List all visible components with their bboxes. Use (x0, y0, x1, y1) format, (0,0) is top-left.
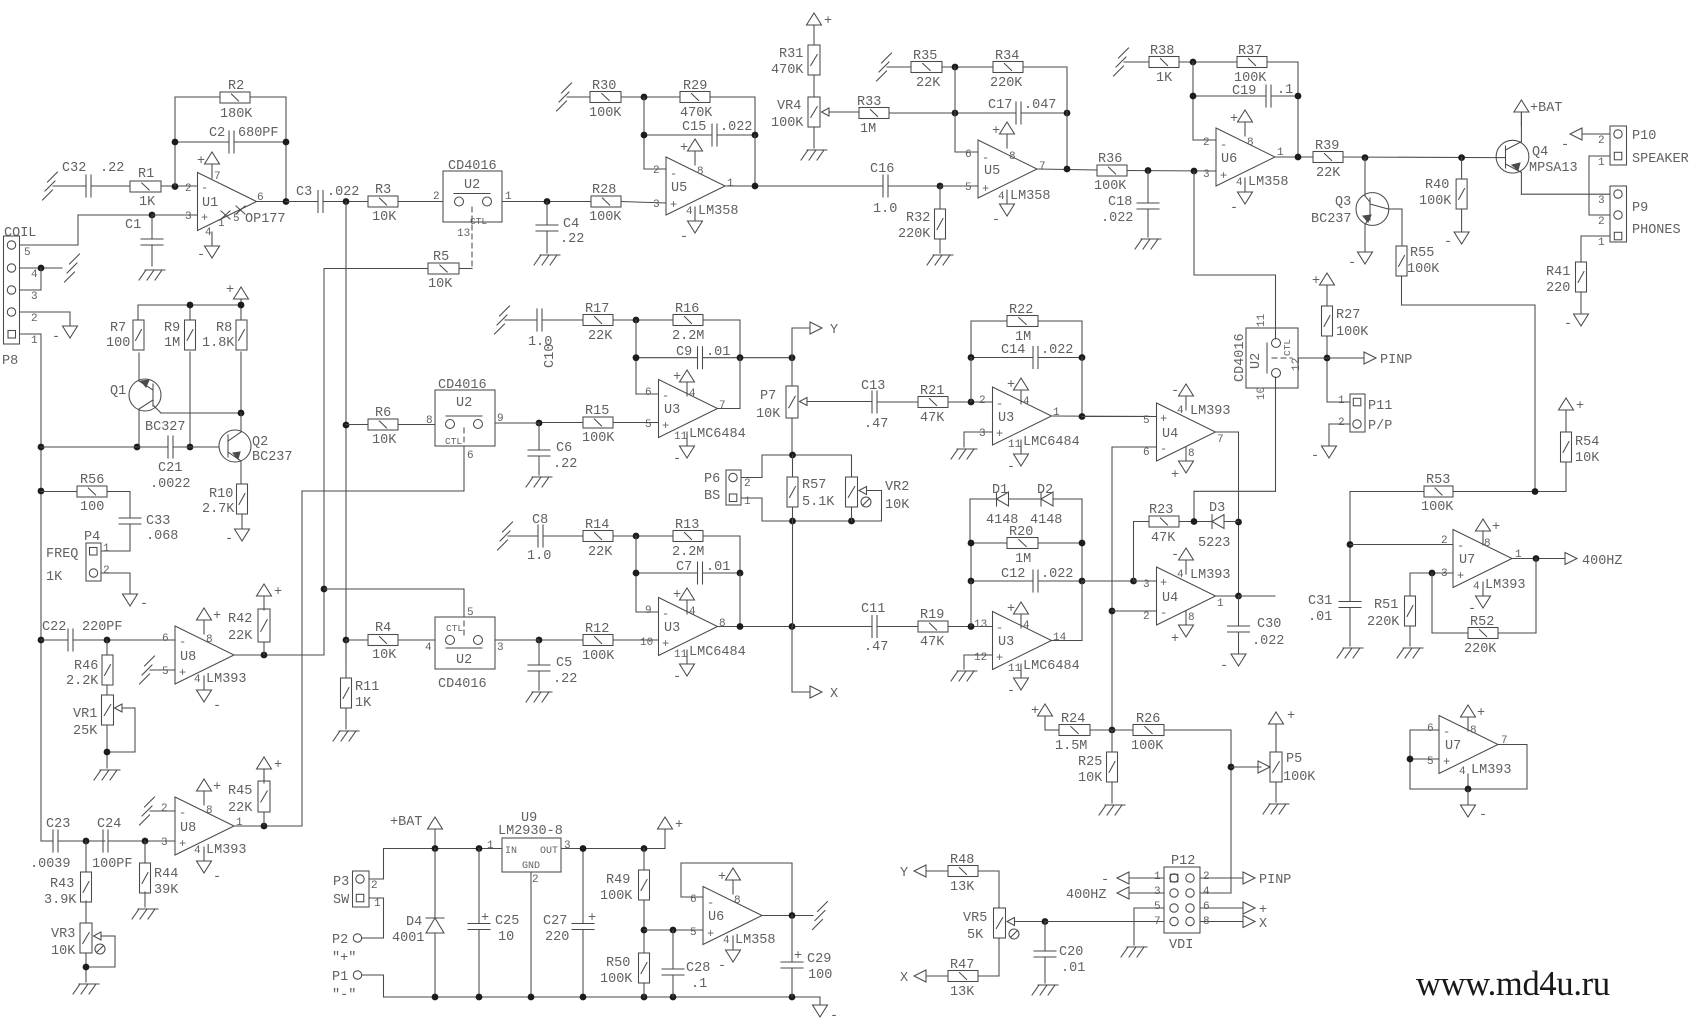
ground C10 (500, 306, 510, 316)
svg-text:-: - (1564, 317, 1572, 332)
svg-text:5: 5 (233, 213, 240, 225)
svg-text:3: 3 (497, 642, 504, 654)
power + R45 (257, 757, 272, 769)
svg-text:.22: .22 (560, 232, 584, 247)
wire (543, 535, 583, 537)
resistor R1 (130, 181, 161, 192)
wire (152, 214, 198, 216)
svg-text:FREQ: FREQ (46, 547, 78, 562)
wire (741, 497, 762, 499)
wire emitter (1521, 193, 1610, 195)
connector P4 (86, 543, 101, 581)
svg-text:1: 1 (236, 817, 243, 829)
node (633, 317, 640, 324)
svg-text:11: 11 (1008, 663, 1022, 675)
svg-text:-: - (982, 151, 989, 165)
svg-text:-: - (140, 597, 148, 612)
svg-text:LM358: LM358 (1248, 175, 1289, 190)
svg-text:22K: 22K (588, 329, 613, 344)
svg-text:R49: R49 (606, 873, 630, 888)
capacitor C13 (871, 391, 873, 413)
svg-text:+: + (1171, 632, 1179, 647)
ground R44 (138, 908, 158, 910)
arrow X P12 (1200, 921, 1243, 923)
capacitor C18 (1147, 171, 1149, 204)
svg-text:C13: C13 (861, 379, 885, 394)
svg-text:R17: R17 (585, 302, 609, 317)
wire (1179, 61, 1237, 63)
svg-text:2: 2 (161, 803, 168, 815)
svg-text:R26: R26 (1136, 712, 1160, 727)
wire pin3 U7a (1410, 572, 1453, 574)
wire (970, 498, 997, 500)
svg-text:10K: 10K (1078, 771, 1103, 786)
svg-text:5.1K: 5.1K (802, 495, 835, 510)
power +V U7b (1461, 705, 1476, 717)
svg-text:R34: R34 (995, 49, 1019, 64)
capacitor C32 (85, 175, 87, 197)
svg-text:2: 2 (653, 165, 660, 177)
resistor R35 (911, 62, 942, 73)
svg-text:4: 4 (1203, 886, 1210, 898)
svg-text:10K: 10K (428, 277, 453, 292)
svg-text:X: X (900, 971, 908, 986)
wire (971, 580, 1033, 582)
svg-text:2: 2 (1441, 535, 1448, 547)
svg-text:2: 2 (1598, 216, 1605, 228)
wire out U4b (1216, 595, 1239, 597)
resistor R13 (673, 531, 703, 542)
capacitor C20 (1044, 922, 1046, 952)
svg-text:R7: R7 (110, 321, 126, 336)
svg-text:6: 6 (645, 387, 652, 399)
resistor R54 (1565, 424, 1567, 432)
wire fb U7b (1410, 729, 1439, 731)
svg-text:C15: C15 (682, 120, 706, 135)
wire (1224, 521, 1239, 523)
svg-text:R52: R52 (1470, 615, 1494, 630)
capacitor C21 (167, 436, 169, 458)
wire (129, 524, 131, 551)
wire (613, 319, 673, 321)
svg-text:1K: 1K (46, 570, 63, 585)
svg-text:-: - (1561, 138, 1569, 153)
svg-text:MPSA13: MPSA13 (1529, 161, 1578, 176)
svg-text:2.2M: 2.2M (672, 329, 704, 344)
svg-text:+: + (824, 14, 832, 29)
svg-text:C12: C12 (1001, 567, 1025, 582)
resistor R31 (813, 39, 815, 45)
svg-text:VR1: VR1 (73, 707, 97, 722)
svg-text:9: 9 (645, 605, 652, 617)
resistor R20 (1007, 538, 1038, 549)
svg-text:R47: R47 (950, 958, 974, 973)
wire out U7a (1512, 558, 1565, 560)
power -V U6b (1238, 192, 1253, 204)
svg-text:R11: R11 (355, 680, 379, 695)
resistor R51 (1405, 596, 1416, 626)
svg-text:25K: 25K (73, 724, 98, 739)
connector P3 (353, 871, 370, 907)
capacitor C22 (67, 629, 69, 651)
svg-text:-: - (1220, 138, 1227, 152)
wire wiper P5 (1231, 766, 1261, 768)
power + R54 (1559, 398, 1574, 410)
node (1042, 918, 1049, 925)
svg-text:100K: 100K (1094, 179, 1127, 194)
svg-text:D4: D4 (406, 915, 422, 930)
svg-text:R40: R40 (1425, 178, 1449, 193)
wire (1581, 235, 1610, 237)
power - P4 (123, 594, 138, 606)
wire (948, 626, 993, 628)
svg-text:470K: 470K (680, 106, 713, 121)
svg-text:1M: 1M (164, 336, 180, 351)
svg-text:100K: 100K (582, 431, 615, 446)
svg-text:100: 100 (80, 500, 104, 515)
connector P6 (726, 470, 741, 505)
node (83, 838, 90, 845)
pot P7 (791, 358, 793, 386)
power +V U6b (1238, 110, 1253, 122)
wire (1350, 491, 1424, 493)
svg-text:-: - (201, 181, 208, 195)
svg-text:U8: U8 (180, 821, 196, 836)
svg-text:-: - (1311, 449, 1319, 464)
transistor Q1 (129, 379, 161, 411)
svg-text:+: + (675, 818, 683, 833)
wire (1192, 62, 1194, 140)
node (38, 444, 45, 451)
svg-text:R31: R31 (779, 47, 803, 62)
svg-text:4: 4 (205, 227, 212, 239)
node (789, 452, 796, 459)
svg-text:R41: R41 (1546, 265, 1570, 280)
node (104, 749, 111, 756)
svg-text:100K: 100K (600, 889, 633, 904)
node inv U1 (172, 183, 179, 190)
svg-text:7: 7 (1154, 916, 1161, 928)
node (1347, 541, 1354, 548)
wire (369, 897, 384, 899)
svg-text:LMC6484: LMC6484 (1023, 659, 1080, 674)
svg-text:C29: C29 (807, 952, 831, 967)
power - rail (813, 1005, 828, 1017)
svg-text:400HZ: 400HZ (1066, 888, 1107, 903)
svg-text:2: 2 (185, 183, 192, 195)
svg-text:.047: .047 (1024, 98, 1056, 113)
resistor R21 (918, 397, 948, 408)
svg-text:.01: .01 (1308, 610, 1332, 625)
node (238, 410, 245, 417)
svg-text:8: 8 (734, 895, 741, 907)
svg-text:Q3: Q3 (1335, 195, 1351, 210)
svg-text:-: - (197, 248, 205, 263)
svg-text:"+": "+" (332, 951, 356, 966)
svg-text:100K: 100K (771, 116, 804, 131)
svg-text:R55: R55 (1410, 246, 1434, 261)
wire (41, 491, 77, 493)
capacitor C14 (1032, 347, 1034, 369)
svg-text:1: 1 (1598, 157, 1605, 169)
diode D3 (1211, 515, 1213, 529)
wire out U5a (725, 185, 883, 187)
wire (813, 127, 815, 148)
op-amp U6a (703, 887, 762, 945)
power + U9out (658, 817, 673, 829)
capacitor C23 (52, 830, 54, 852)
svg-text:.022: .022 (1101, 211, 1133, 226)
svg-text:.22: .22 (553, 672, 577, 687)
svg-text:+: + (588, 911, 596, 926)
svg-text:VR4: VR4 (777, 99, 801, 114)
svg-text:+: + (1576, 399, 1584, 414)
svg-text:1: 1 (1338, 395, 1345, 407)
svg-text:+: + (982, 182, 989, 196)
svg-text:.22: .22 (100, 161, 124, 176)
wire (644, 929, 703, 931)
svg-text:+: + (1230, 112, 1238, 127)
wire (791, 418, 793, 455)
capacitor C4 (546, 202, 548, 226)
svg-text:100PF: 100PF (92, 857, 133, 872)
svg-text:P2: P2 (332, 933, 348, 948)
wire (621, 96, 680, 98)
wire (877, 401, 918, 403)
resistor R14 (583, 531, 613, 542)
wire (613, 535, 673, 537)
svg-text:6: 6 (467, 450, 474, 462)
svg-text:PINP: PINP (1380, 353, 1412, 368)
capacitor C3 (317, 191, 319, 213)
svg-text:.1: .1 (691, 977, 707, 992)
svg-text:R6: R6 (375, 406, 391, 421)
svg-text:220K: 220K (1367, 615, 1400, 630)
node (142, 838, 149, 845)
wire (324, 268, 428, 270)
wire (175, 96, 220, 98)
wire (1134, 521, 1150, 523)
svg-text:R56: R56 (80, 473, 104, 488)
resistor R15 (583, 417, 613, 428)
svg-text:4001: 4001 (392, 931, 424, 946)
wire (940, 185, 978, 187)
resistor R9 (185, 320, 196, 350)
node (1191, 518, 1198, 525)
ground VR1 (100, 769, 120, 771)
svg-text:R39: R39 (1315, 139, 1339, 154)
wire (635, 320, 637, 394)
arrow 400HZ out (1565, 553, 1577, 565)
wire (53, 185, 86, 187)
svg-text:-: - (1171, 548, 1179, 563)
resistor R39 (1313, 152, 1343, 163)
svg-text:+: + (1312, 274, 1320, 289)
wire pin3 U4b (1134, 580, 1157, 582)
wire (1565, 462, 1567, 492)
wire fb U6a (681, 896, 703, 898)
svg-text:R28: R28 (592, 183, 616, 198)
svg-text:LM358: LM358 (698, 204, 739, 219)
svg-text:10K: 10K (372, 210, 397, 225)
node (937, 183, 944, 190)
wire pin2 U5a (643, 97, 645, 169)
resistor R40 (1461, 158, 1463, 179)
wire (285, 97, 287, 202)
wire (175, 141, 229, 143)
power + R31 (807, 13, 822, 25)
wire (234, 141, 286, 143)
ground U8a pin5 (145, 656, 155, 666)
op-amp U3b (659, 598, 718, 656)
power -V top U4b (1179, 548, 1194, 560)
ground U6a out (818, 902, 828, 912)
transistor Q2 (219, 430, 251, 462)
svg-text:R12: R12 (585, 622, 609, 637)
svg-text:R25: R25 (1078, 755, 1102, 770)
svg-text:D3: D3 (1209, 501, 1225, 516)
svg-text:1.5M: 1.5M (1055, 739, 1087, 754)
svg-text:-: - (1160, 442, 1167, 456)
ground C18 (1141, 238, 1161, 240)
svg-text:+: + (996, 427, 1003, 441)
svg-text:P6: P6 (704, 472, 720, 487)
resistor R56 (77, 486, 107, 497)
ground VR3 (79, 983, 99, 985)
resistor R3 (368, 196, 398, 207)
resistor R50 (639, 953, 650, 983)
wire rail end (819, 997, 821, 1004)
svg-text:220K: 220K (1464, 642, 1497, 657)
wire (703, 319, 740, 321)
wire (643, 983, 645, 997)
svg-text:-: - (670, 167, 677, 181)
svg-text:+: + (1160, 576, 1167, 590)
wire (85, 953, 87, 982)
svg-text:P1: P1 (332, 970, 348, 985)
svg-text:R32: R32 (906, 211, 930, 226)
wire (106, 725, 108, 768)
svg-text:C32: C32 (62, 161, 86, 176)
svg-text:C31: C31 (1308, 594, 1332, 609)
svg-text:U3: U3 (998, 635, 1014, 650)
wire (1329, 423, 1350, 425)
ground (48, 172, 58, 182)
node (1064, 110, 1071, 117)
svg-text:8: 8 (426, 415, 433, 427)
wire (101, 550, 130, 552)
power - Q3 (1358, 252, 1373, 264)
svg-text:+: + (274, 758, 282, 773)
svg-text:4: 4 (1177, 569, 1184, 581)
arrow + P12 (1200, 907, 1243, 909)
node (1362, 154, 1369, 161)
svg-text:-: - (992, 213, 1000, 228)
svg-text:-: - (662, 607, 669, 621)
svg-text:1M: 1M (1015, 552, 1031, 567)
svg-text:5: 5 (467, 607, 474, 619)
svg-text:PINP: PINP (1259, 873, 1291, 888)
capacitor C19 (1265, 85, 1267, 107)
svg-text:R24: R24 (1061, 712, 1085, 727)
power +BAT (428, 817, 443, 829)
power + P5 (1269, 712, 1284, 724)
svg-text:+: + (1457, 569, 1464, 583)
svg-text:5: 5 (690, 927, 697, 939)
svg-text:C4: C4 (563, 217, 579, 232)
svg-text:R16: R16 (675, 302, 699, 317)
svg-text:-: - (1457, 539, 1464, 553)
wire (152, 446, 168, 448)
svg-text:U2: U2 (456, 653, 472, 668)
node (633, 533, 640, 540)
resistor R32 (939, 186, 941, 209)
svg-text:OP177: OP177 (245, 212, 286, 227)
svg-text:P11: P11 (1368, 399, 1392, 414)
svg-text:7: 7 (214, 171, 221, 183)
svg-text:CD4016: CD4016 (438, 378, 487, 393)
svg-text:1K: 1K (139, 195, 156, 210)
svg-text:BS: BS (704, 489, 720, 504)
svg-text:22K: 22K (588, 545, 613, 560)
wire base line (41, 446, 152, 448)
capacitor C31 (1339, 601, 1361, 603)
node (952, 110, 959, 117)
svg-text:47K: 47K (920, 411, 945, 426)
arrow PINP P12 (1200, 877, 1243, 879)
wire (1326, 336, 1328, 402)
wire (1127, 170, 1216, 173)
svg-text:VR3: VR3 (51, 927, 75, 942)
wire (346, 424, 368, 426)
wire (1239, 595, 1276, 597)
svg-text:-: - (179, 806, 186, 820)
svg-text:.022: .022 (1041, 343, 1073, 358)
node (1532, 488, 1539, 495)
svg-text:1K: 1K (1156, 71, 1173, 86)
resistor R29 (680, 92, 710, 103)
resistor R2 (220, 92, 250, 103)
svg-text:+: + (197, 154, 205, 169)
svg-text:R5: R5 (433, 250, 449, 265)
svg-text:LM2930-8: LM2930-8 (498, 824, 563, 839)
ground C1 (145, 269, 165, 271)
power +V U8b (197, 779, 212, 791)
svg-text:-: - (1160, 606, 1167, 620)
svg-text:+: + (992, 124, 1000, 139)
diode D1 (996, 492, 998, 506)
wire (971, 320, 1007, 322)
svg-text:Y: Y (900, 866, 908, 881)
ground R30 (562, 83, 572, 93)
power -V top U4a (1179, 384, 1194, 396)
svg-text:10: 10 (1256, 387, 1268, 400)
power + R24 (1038, 704, 1053, 716)
resistor R24 (1059, 725, 1090, 736)
svg-text:100K: 100K (589, 210, 622, 225)
power - P11 (1322, 446, 1337, 458)
svg-text:180K: 180K (220, 107, 253, 122)
svg-text:6: 6 (1427, 723, 1434, 735)
node (187, 302, 194, 309)
wire (263, 642, 265, 655)
wire CTL to U2c (324, 588, 464, 590)
wire out U3b (718, 626, 873, 628)
svg-text:1: 1 (31, 335, 38, 347)
resistor R45 (258, 781, 270, 812)
svg-text:-: - (996, 397, 1003, 411)
resistor R46 (106, 640, 108, 655)
